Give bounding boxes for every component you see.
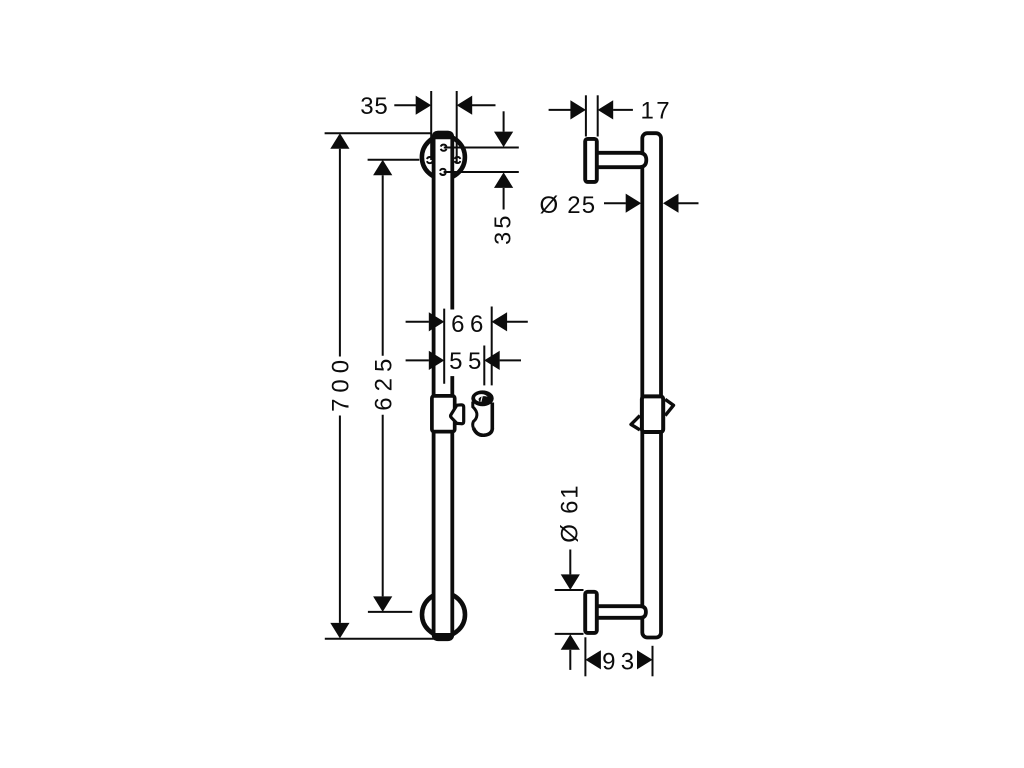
dimension 17 xyxy=(549,95,672,136)
screw left xyxy=(427,157,433,163)
wall mount circle bottom xyxy=(422,593,465,636)
side view slide bar xyxy=(642,133,661,637)
svg-text:35: 35 xyxy=(490,212,516,245)
screw bottom xyxy=(440,169,446,175)
side view bottom arm xyxy=(596,606,646,618)
svg-text:66: 66 xyxy=(451,311,489,338)
side view slider right tab xyxy=(665,399,673,415)
side view bottom wall plate xyxy=(585,592,597,633)
side view top wall plate xyxy=(585,139,597,182)
svg-text:700: 700 xyxy=(327,354,354,412)
screw right xyxy=(455,157,461,163)
dimension 66 xyxy=(406,307,528,386)
dimension 700 xyxy=(325,133,434,639)
side view top arm xyxy=(596,153,646,167)
holder cylinder front view xyxy=(471,390,493,435)
svg-text:17: 17 xyxy=(641,98,673,125)
svg-text:625: 625 xyxy=(371,353,398,411)
svg-text:35: 35 xyxy=(360,93,388,120)
holder hook front view xyxy=(451,405,464,424)
svg-text:Ø 61: Ø 61 xyxy=(557,484,584,543)
bar right edge blank patch for 66/55 texts xyxy=(450,310,457,377)
svg-text:93: 93 xyxy=(602,649,639,676)
dimension diameter 61 xyxy=(555,484,584,670)
side view slider body xyxy=(642,396,663,432)
slider body front view xyxy=(432,396,455,432)
dimension 55 xyxy=(406,346,521,386)
dimension diameter 25 xyxy=(540,192,699,219)
screw top xyxy=(441,145,447,151)
dimension 93 xyxy=(585,637,652,676)
dimension 625 xyxy=(368,160,420,612)
wall mount circle top xyxy=(422,136,465,179)
svg-text:55: 55 xyxy=(449,348,487,375)
dimension 35 vertical (screw spacing) xyxy=(444,111,519,245)
side view slider left tab xyxy=(631,416,640,430)
svg-text:Ø 25: Ø 25 xyxy=(540,192,597,219)
dimension 35 horizontal top xyxy=(360,91,495,163)
slide bar front view xyxy=(434,133,453,640)
